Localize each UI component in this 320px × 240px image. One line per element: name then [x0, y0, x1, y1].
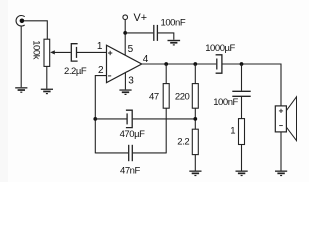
ground R4	[236, 171, 248, 177]
wire R1 bottom rail	[165, 108, 167, 153]
capacitor C4 47nF	[129, 145, 133, 161]
ground jack	[15, 87, 27, 93]
wire zobel top	[241, 64, 243, 91]
wire R2 bottom	[194, 108, 196, 129]
svg-text:4: 4	[143, 54, 149, 65]
wire C6 to R4	[241, 97, 243, 119]
svg-text:2.2: 2.2	[177, 136, 189, 147]
potentiometer P1 100k	[44, 39, 55, 66]
wire R2 top	[194, 64, 196, 84]
resistor R3 2.2	[192, 129, 198, 154]
svg-text:3: 3	[128, 75, 134, 86]
wire C1 to pin1	[77, 51, 107, 53]
svg-text:100k: 100k	[31, 40, 42, 60]
ground speaker	[275, 171, 287, 177]
wire pot wiper to C1	[55, 51, 71, 53]
wire junction to C2	[125, 32, 153, 34]
svg-text:1: 1	[97, 41, 103, 52]
wire C4 to R1 rail	[133, 152, 166, 154]
wire C5 to speaker	[222, 64, 281, 106]
resistor R2 220	[192, 84, 198, 109]
wire speaker to ground	[280, 132, 282, 171]
svg-text:V+: V+	[134, 12, 148, 24]
wire C2 to ground	[158, 33, 174, 40]
svg-text:5: 5	[128, 44, 134, 55]
node output/R1	[164, 62, 168, 66]
svg-text:2.2µF: 2.2µF	[64, 66, 87, 77]
node feedback left	[93, 117, 97, 121]
svg-text:1000µF: 1000µF	[205, 43, 235, 54]
speaker LS1	[275, 97, 296, 141]
capacitor C1 2.2uF	[71, 44, 77, 61]
svg-text:1: 1	[230, 126, 235, 137]
ground C2	[168, 40, 181, 46]
svg-text:100nF: 100nF	[213, 97, 238, 108]
wire R3 to ground	[194, 155, 196, 171]
V+ terminal	[123, 15, 128, 20]
wire jack to pot top	[24, 21, 47, 39]
op-amp U1	[107, 45, 142, 82]
svg-text:47: 47	[149, 91, 159, 102]
wire R4 to ground	[241, 145, 243, 171]
capacitor C5 1000uF	[216, 55, 222, 73]
wire output line	[142, 63, 217, 65]
capacitor C3 470uF	[126, 110, 132, 127]
resistor R1 47	[163, 84, 169, 109]
wire C3 to node R2/R3	[133, 118, 196, 120]
capacitor C2 100nF	[154, 25, 158, 41]
wire R1 top	[165, 64, 167, 84]
ground pot	[41, 89, 53, 95]
input jack J1	[16, 16, 25, 27]
svg-text:220: 220	[175, 91, 190, 102]
wire pin2 to feedback rail	[95, 76, 106, 154]
wire pin3 to ground	[124, 73, 126, 90]
svg-text:100nF: 100nF	[161, 18, 186, 29]
node R2/R3/C3	[193, 117, 197, 121]
resistor R4 1	[239, 119, 245, 145]
wire jack to ground	[20, 26, 22, 87]
node zobel	[240, 62, 244, 66]
wire 47nF branch	[95, 152, 128, 154]
wire pot bottom to ground	[46, 66, 48, 88]
left margin shade	[0, 0, 8, 182]
node V+ junction	[123, 31, 127, 35]
wire feedback to C3	[95, 118, 126, 120]
svg-text:470µF: 470µF	[120, 129, 146, 140]
svg-text:47nF: 47nF	[120, 165, 141, 176]
node output/R2	[193, 62, 197, 66]
svg-text:2: 2	[98, 65, 104, 76]
wire V+ to pin5	[124, 20, 126, 56]
capacitor C6 100nF zobel	[232, 91, 250, 96]
ground pin3	[119, 89, 131, 95]
ground R3	[189, 171, 201, 177]
